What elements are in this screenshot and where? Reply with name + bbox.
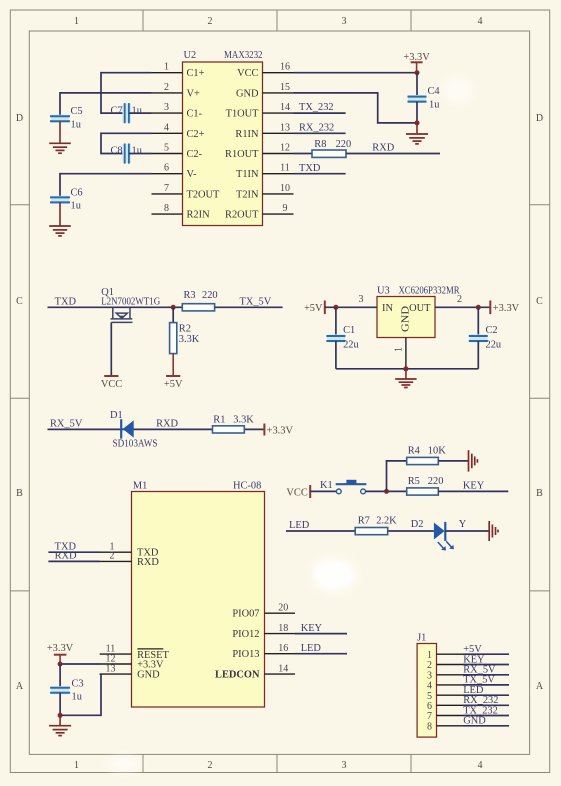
svg-text:16: 16 — [280, 62, 290, 73]
svg-text:GND: GND — [463, 716, 486, 727]
svg-text:KEY: KEY — [463, 481, 485, 492]
svg-text:B: B — [16, 488, 23, 499]
svg-text:D: D — [536, 113, 543, 124]
wire pin12 to R8 — [294, 153, 313, 155]
svg-text:5: 5 — [164, 143, 169, 154]
svg-text:13: 13 — [280, 122, 290, 133]
wire C4 to gnd node — [416, 102, 418, 123]
svg-text:3.3K: 3.3K — [233, 414, 254, 425]
resistor R3 220 — [182, 290, 217, 311]
J1 pin 7 TX_232 — [427, 705, 509, 722]
svg-text:VCC: VCC — [237, 68, 258, 79]
svg-text:VCC: VCC — [101, 379, 122, 390]
watermark smudge 3 — [442, 77, 474, 103]
svg-text:2: 2 — [164, 82, 169, 93]
M1 pin 18 PIO12 KEY — [232, 623, 347, 640]
svg-text:PIO07: PIO07 — [232, 608, 259, 619]
svg-text:10: 10 — [280, 183, 290, 194]
J1 pin 3 RX_5V — [427, 665, 509, 682]
svg-text:10K: 10K — [428, 446, 446, 457]
svg-text:7: 7 — [164, 183, 169, 194]
svg-text:HC-08: HC-08 — [233, 480, 261, 491]
svg-text:4: 4 — [164, 122, 169, 133]
svg-text:TXD: TXD — [299, 163, 321, 174]
LED D2 — [411, 519, 467, 550]
wire R5 to KEY — [438, 481, 508, 492]
U2 pin 14 T1OUT — [226, 102, 294, 120]
wire pin6 to C6 — [60, 174, 152, 198]
U2 pin 2 V+ — [152, 82, 201, 100]
svg-text:C5: C5 — [71, 106, 83, 117]
svg-text:V-: V- — [187, 169, 198, 180]
svg-text:C8: C8 — [111, 146, 123, 157]
U3 pin 2 wire to +3.3V — [435, 294, 490, 307]
svg-text:2: 2 — [110, 551, 115, 562]
wire pin13 to C3 bottom — [60, 674, 101, 715]
wire pin14 TX_232 — [294, 102, 346, 113]
wire pin16 to +3.3V node — [294, 72, 418, 74]
svg-text:11: 11 — [280, 163, 290, 174]
svg-text:R2: R2 — [179, 324, 191, 335]
wire VCC to K1 — [310, 490, 336, 492]
M1 pin 16 PIO13 LED — [232, 643, 347, 660]
wire TXD row to Q1/R3 — [48, 296, 183, 307]
power +3.3V above C3 — [47, 643, 74, 664]
svg-text:1: 1 — [74, 16, 79, 27]
wire pin13 RX_232 — [294, 122, 346, 133]
wire bottom rail U3 — [336, 368, 478, 370]
ground below C4 — [406, 123, 428, 144]
svg-text:18: 18 — [278, 623, 288, 634]
capacitor C8 — [111, 144, 143, 164]
power +3.3V right of R1 — [264, 424, 293, 437]
svg-text:R2OUT: R2OUT — [225, 210, 259, 221]
regulator U3 XC6206P332MR body — [377, 285, 460, 337]
svg-text:2.2K: 2.2K — [376, 516, 397, 527]
wire junction up to R4 — [387, 461, 407, 492]
svg-text:3: 3 — [342, 16, 347, 27]
svg-text:1u: 1u — [72, 692, 83, 703]
wire R4 to ground — [438, 460, 468, 462]
U2 pin 15 GND — [236, 82, 294, 100]
svg-text:4: 4 — [478, 760, 483, 771]
svg-text:GND: GND — [137, 670, 160, 681]
svg-text:C7: C7 — [111, 105, 123, 116]
wire +5V to U3 pin3 — [325, 306, 377, 308]
wire pin2 to C5 — [60, 93, 152, 116]
svg-text:+5V: +5V — [164, 379, 183, 390]
node junction C1/+5V — [333, 305, 338, 310]
wire K1 to junction and R5 — [366, 490, 407, 492]
M1 pin 1 TXD — [48, 541, 158, 558]
svg-text:R3: R3 — [184, 290, 196, 301]
svg-text:TXD: TXD — [55, 296, 77, 307]
svg-text:C2: C2 — [486, 325, 498, 336]
svg-text:20: 20 — [278, 603, 288, 614]
U2 pin 6 V- — [152, 163, 198, 181]
U2 pin 11 T1IN — [236, 163, 294, 181]
svg-text:T1OUT: T1OUT — [226, 109, 260, 120]
wire D2 to ground — [445, 530, 489, 532]
svg-text:1u: 1u — [71, 201, 82, 212]
svg-text:220: 220 — [428, 476, 444, 487]
power VCC below Q1 — [101, 376, 122, 390]
ground under C5 — [49, 143, 71, 153]
U2 pin 3 C1- — [152, 102, 203, 120]
svg-text:LED: LED — [289, 520, 310, 531]
svg-text:9: 9 — [283, 203, 288, 214]
wire R3 to TX_5V — [215, 296, 283, 307]
U2 pin 7 T2OUT — [152, 183, 221, 201]
svg-text:C3: C3 — [72, 678, 84, 689]
wire pin11 TXD — [294, 163, 346, 174]
svg-text:R4: R4 — [408, 446, 421, 457]
svg-text:GND: GND — [236, 88, 259, 99]
svg-text:+5V: +5V — [304, 303, 323, 314]
J1 pin 4 TX_5V — [427, 675, 509, 692]
svg-text:+3.3V: +3.3V — [493, 303, 520, 314]
svg-text:220: 220 — [336, 139, 352, 150]
resistor R1 3.3K — [213, 414, 255, 433]
wire pin1 to C7 left — [101, 73, 152, 113]
svg-text:PIO13: PIO13 — [232, 649, 259, 660]
diode D1 SD103AWS — [110, 410, 158, 450]
J1 pin 8 GND — [427, 716, 509, 733]
svg-text:1: 1 — [74, 760, 79, 771]
M1 pin 11 RESET — [100, 644, 170, 661]
svg-text:3: 3 — [164, 102, 169, 113]
svg-text:J1: J1 — [417, 633, 426, 644]
svg-text:SD103AWS: SD103AWS — [113, 439, 158, 450]
U3 pin 1 GND stub — [394, 338, 406, 369]
svg-text:R7: R7 — [358, 516, 370, 527]
svg-text:U2: U2 — [184, 50, 197, 61]
U2 pin 5 C2- — [152, 143, 203, 161]
svg-text:V+: V+ — [187, 88, 201, 99]
svg-text:+3.3V: +3.3V — [47, 643, 74, 654]
svg-text:22u: 22u — [343, 340, 359, 351]
capacitor C4 — [408, 86, 441, 110]
wire C7 right to pin3 — [129, 112, 152, 114]
wire C5 to ground — [59, 121, 61, 143]
ground below U3 — [395, 369, 416, 388]
svg-text:D: D — [16, 113, 23, 124]
node junction C2 top — [476, 305, 481, 310]
svg-text:C1+: C1+ — [187, 68, 205, 79]
resistor R7 2.2K — [355, 516, 397, 535]
wire junction to R2 — [172, 307, 174, 322]
wire R2 to +5V — [172, 354, 174, 376]
U2 pin 9 R2OUT — [225, 203, 293, 221]
U2 pin 13 R1IN — [235, 122, 293, 140]
svg-text:KEY: KEY — [301, 623, 323, 634]
svg-text:1: 1 — [164, 62, 169, 73]
ground right of R4 — [469, 450, 478, 471]
svg-text:1u: 1u — [429, 99, 440, 110]
J1 pin 1 +5V — [427, 644, 509, 661]
svg-text:3: 3 — [359, 294, 364, 305]
svg-text:MAX3232: MAX3232 — [224, 50, 263, 61]
wire R8 to RXD — [346, 143, 440, 154]
node junction U3 gnd — [403, 366, 408, 371]
svg-text:B: B — [536, 488, 543, 499]
svg-text:R1IN: R1IN — [235, 129, 259, 140]
svg-text:TX_5V: TX_5V — [240, 296, 272, 307]
power VCC at K1 — [286, 485, 310, 498]
capacitor C1 22u — [326, 307, 359, 369]
svg-text:TX_232: TX_232 — [299, 102, 334, 113]
switch K1 — [320, 480, 366, 494]
U2 pin 10 T2IN — [236, 183, 294, 201]
svg-text:R2IN: R2IN — [187, 210, 211, 221]
svg-text:22u: 22u — [486, 340, 502, 351]
M1 pin 20 PIO07 — [232, 603, 295, 620]
svg-text:OUT: OUT — [409, 303, 431, 314]
op-amp U2 MAX3232 body — [183, 50, 263, 226]
svg-text:K1: K1 — [320, 480, 333, 491]
svg-text:8: 8 — [164, 203, 169, 214]
svg-text:C: C — [536, 296, 543, 307]
node junction C4/pin15/gnd — [415, 120, 420, 125]
U2 pin 4 C2+ — [152, 122, 205, 140]
J1 pin 2 KEY — [427, 654, 509, 671]
svg-text:A: A — [16, 681, 24, 692]
svg-text:4: 4 — [478, 16, 483, 27]
wire C6 to ground — [59, 202, 61, 226]
svg-text:RXD: RXD — [156, 418, 178, 429]
capacitor C2 22u — [469, 307, 502, 369]
svg-text:D2: D2 — [411, 519, 424, 530]
U2 pin 12 R1OUT — [225, 143, 293, 161]
node junction TXD/R2 — [171, 305, 176, 310]
wire +3.3V node to C4 — [416, 73, 418, 97]
svg-text:RXD: RXD — [55, 551, 77, 562]
resistor R8 220 — [312, 139, 351, 157]
power +3.3V at U3 output — [490, 301, 519, 315]
M1 pin 12 +3.3V — [60, 653, 164, 670]
svg-text:C2+: C2+ — [187, 129, 205, 140]
svg-text:RX_232: RX_232 — [299, 122, 334, 133]
svg-text:LED: LED — [301, 643, 322, 654]
U2 pin 16 VCC — [237, 62, 293, 80]
svg-text:+3.3V: +3.3V — [267, 425, 294, 436]
ground right of D2 — [489, 521, 498, 541]
svg-text:RXD: RXD — [372, 143, 394, 154]
J1 pin 5 LED — [427, 685, 509, 702]
svg-text:16: 16 — [278, 643, 288, 654]
M1 pin 14 LEDCON — [215, 664, 295, 681]
svg-text:A: A — [536, 681, 544, 692]
svg-text:2: 2 — [457, 294, 462, 305]
wire pin4 to C8 left — [101, 133, 152, 153]
svg-text:C1: C1 — [343, 325, 355, 336]
capacitor C5 — [50, 106, 83, 130]
svg-text:R1OUT: R1OUT — [225, 149, 259, 160]
svg-text:220: 220 — [202, 290, 218, 301]
ground below C3 — [49, 715, 71, 735]
capacitor C6 — [50, 187, 83, 211]
svg-text:T2IN: T2IN — [236, 189, 259, 200]
svg-text:3: 3 — [342, 760, 347, 771]
svg-text:C4: C4 — [428, 86, 441, 97]
node junction K1/R4/R5 — [384, 489, 389, 494]
svg-text:13: 13 — [106, 663, 116, 674]
watermark smudge 1 — [312, 559, 356, 591]
svg-text:C1-: C1- — [187, 109, 203, 120]
svg-text:14: 14 — [278, 664, 288, 675]
power +5V at U3 input — [304, 301, 325, 315]
svg-text:R8: R8 — [314, 139, 326, 150]
svg-text:L2N7002WT1G: L2N7002WT1G — [101, 297, 160, 308]
node junction C3 bottom — [58, 713, 63, 718]
capacitor C7 — [111, 103, 143, 123]
svg-text:R5: R5 — [408, 476, 420, 487]
svg-text:T2OUT: T2OUT — [187, 189, 221, 200]
module M1 HC-08 body — [132, 480, 265, 707]
svg-text:C2-: C2- — [187, 149, 203, 160]
wire RX_5V row — [48, 418, 265, 429]
node junction pin16/+3.3V — [415, 70, 420, 75]
svg-text:8: 8 — [427, 721, 432, 732]
svg-text:T1IN: T1IN — [236, 169, 259, 180]
svg-text:15: 15 — [280, 82, 290, 93]
svg-text:C: C — [16, 296, 23, 307]
svg-text:R1: R1 — [213, 414, 225, 425]
wire C8 right to pin5 — [129, 153, 152, 155]
svg-text:RX_5V: RX_5V — [50, 418, 83, 429]
watermark smudge 2 — [107, 755, 141, 773]
resistor R2 3.3K — [170, 323, 200, 354]
power +3.3V top — [403, 52, 430, 72]
resistor R5 220 — [407, 476, 444, 495]
U2 pin 1 C1+ — [152, 62, 205, 80]
svg-text:2: 2 — [208, 16, 213, 27]
svg-text:GND: GND — [401, 305, 412, 332]
svg-text:PIO12: PIO12 — [232, 629, 259, 640]
svg-text:3.3K: 3.3K — [179, 334, 200, 345]
J1 pin 6 RX_232 — [427, 695, 509, 712]
svg-text:VCC: VCC — [286, 487, 307, 498]
ground under C6 — [49, 226, 71, 236]
power +5V below R2 — [164, 376, 183, 390]
resistor R4 10K — [407, 446, 446, 465]
wire LED row — [286, 520, 434, 531]
connector J1 body — [417, 633, 436, 738]
svg-text:M1: M1 — [133, 480, 147, 491]
wire pin15 to gnd node — [294, 93, 418, 123]
svg-text:1u: 1u — [71, 119, 82, 130]
svg-text:14: 14 — [280, 102, 290, 113]
node junction +3.3V/C3/pin12 — [58, 662, 63, 667]
svg-text:C6: C6 — [71, 187, 83, 198]
U2 pin 8 R2IN — [152, 203, 211, 221]
svg-text:RXD: RXD — [137, 557, 159, 568]
svg-text:U3: U3 — [377, 285, 390, 296]
svg-text:XC6206P332MR: XC6206P332MR — [399, 285, 460, 296]
svg-text:1: 1 — [394, 347, 405, 352]
capacitor C3 1u — [50, 664, 84, 715]
svg-text:1u: 1u — [132, 105, 143, 116]
M1 pin 13 GND — [100, 663, 161, 680]
M1 pin 2 RXD — [48, 551, 159, 568]
svg-text:12: 12 — [280, 143, 290, 154]
svg-text:Y: Y — [459, 519, 467, 530]
svg-text:LEDCON: LEDCON — [215, 669, 260, 680]
svg-text:6: 6 — [164, 163, 169, 174]
svg-text:1u: 1u — [132, 146, 143, 157]
svg-text:IN: IN — [382, 303, 393, 314]
svg-text:2: 2 — [208, 760, 213, 771]
transistor Q1 L2N7002WT1G — [101, 287, 160, 376]
